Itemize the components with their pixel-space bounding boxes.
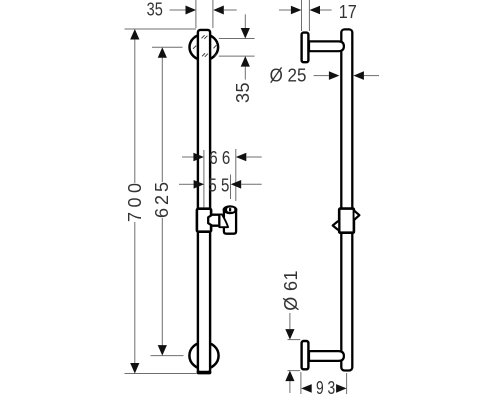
- svg-text:6 6: 6 6: [209, 148, 230, 168]
- svg-text:17: 17: [339, 2, 357, 22]
- svg-text:5 5: 5 5: [208, 175, 229, 195]
- svg-text:9 3: 9 3: [316, 378, 335, 398]
- svg-text:700: 700: [125, 183, 145, 222]
- svg-text:O 25: O 25: [270, 65, 307, 85]
- svg-text:625: 625: [152, 182, 172, 218]
- svg-text:35: 35: [233, 83, 253, 104]
- svg-text:35: 35: [147, 0, 163, 20]
